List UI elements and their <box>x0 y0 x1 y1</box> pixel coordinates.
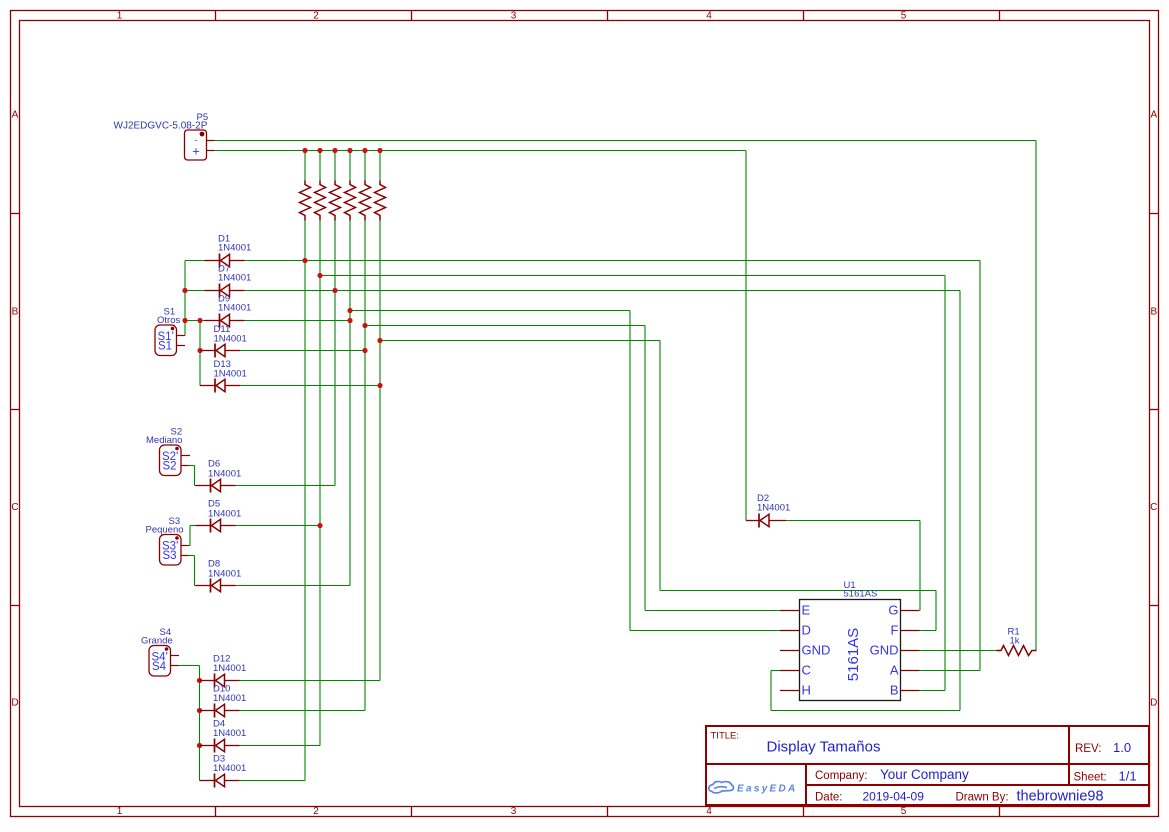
svg-text:5161AS: 5161AS <box>844 589 878 600</box>
svg-text:Drawn By:: Drawn By: <box>956 792 1009 804</box>
svg-text:S3: S3 <box>163 550 177 562</box>
svg-text:D: D <box>802 623 811 638</box>
svg-text:1k: 1k <box>1010 636 1020 647</box>
svg-text:5: 5 <box>901 806 907 817</box>
svg-text:1N4001: 1N4001 <box>214 369 247 380</box>
svg-text:Display Tamaños: Display Tamaños <box>767 739 881 756</box>
svg-text:1N4001: 1N4001 <box>218 303 251 314</box>
svg-text:1N4001: 1N4001 <box>213 763 246 774</box>
svg-text:C: C <box>802 663 811 678</box>
svg-text:E: E <box>802 603 811 618</box>
svg-text:Date:: Date: <box>815 792 843 804</box>
svg-text:A: A <box>1150 110 1157 121</box>
svg-text:5161AS: 5161AS <box>845 628 862 681</box>
svg-text:Pequeno: Pequeno <box>146 525 184 536</box>
svg-text:1N4001: 1N4001 <box>213 663 246 674</box>
svg-text:Sheet:: Sheet: <box>1074 772 1107 784</box>
svg-text:S4: S4 <box>152 661 167 673</box>
svg-text:Otros: Otros <box>157 315 180 326</box>
svg-text:1N4001: 1N4001 <box>208 509 241 520</box>
svg-text:S1: S1 <box>158 341 172 353</box>
svg-text:B: B <box>12 307 19 318</box>
svg-text:REV:: REV: <box>1075 743 1101 755</box>
svg-text:1N4001: 1N4001 <box>213 693 246 704</box>
svg-text:Grande: Grande <box>141 636 173 647</box>
svg-text:Mediano: Mediano <box>146 435 182 446</box>
svg-text:4: 4 <box>706 11 712 22</box>
svg-text:1N4001: 1N4001 <box>213 728 246 739</box>
svg-text:D: D <box>11 698 18 709</box>
svg-text:1/1: 1/1 <box>1119 769 1137 784</box>
svg-text:F: F <box>891 623 899 638</box>
svg-text:1: 1 <box>117 806 123 817</box>
svg-text:1.0: 1.0 <box>1113 740 1131 755</box>
svg-text:4: 4 <box>706 806 712 817</box>
svg-text:2: 2 <box>313 806 319 817</box>
svg-text:1: 1 <box>117 11 123 22</box>
svg-text:TITLE:: TITLE: <box>711 731 740 742</box>
svg-text:C: C <box>1150 502 1157 513</box>
svg-text:1N4001: 1N4001 <box>218 273 251 284</box>
svg-text:C: C <box>11 502 18 513</box>
svg-text:5: 5 <box>901 11 907 22</box>
svg-text:1N4001: 1N4001 <box>214 334 247 345</box>
svg-text:3: 3 <box>511 806 517 817</box>
svg-text:D: D <box>1150 698 1157 709</box>
svg-text:A: A <box>12 110 19 121</box>
svg-text:A: A <box>890 663 899 678</box>
svg-text:EasyEDA: EasyEDA <box>737 784 798 795</box>
svg-text:S2: S2 <box>163 461 177 473</box>
svg-text:1N4001: 1N4001 <box>218 243 251 254</box>
svg-text:1N4001: 1N4001 <box>757 503 790 514</box>
svg-text:2019-04-09: 2019-04-09 <box>863 790 925 804</box>
svg-text:+: + <box>192 144 200 159</box>
svg-text:1N4001: 1N4001 <box>208 569 241 580</box>
svg-text:WJ2EDGVC-5.08-2P: WJ2EDGVC-5.08-2P <box>114 121 208 132</box>
svg-text:Company:: Company: <box>815 770 867 782</box>
svg-text:thebrownie98: thebrownie98 <box>1017 789 1104 805</box>
svg-text:G: G <box>888 603 898 618</box>
svg-text:H: H <box>802 683 811 698</box>
svg-text:3: 3 <box>511 11 517 22</box>
svg-text:GND: GND <box>870 643 899 658</box>
svg-text:2: 2 <box>313 11 319 22</box>
svg-text:B: B <box>1150 307 1157 318</box>
svg-text:B: B <box>890 683 899 698</box>
svg-text:Your Company: Your Company <box>880 767 969 782</box>
svg-text:GND: GND <box>802 643 831 658</box>
svg-text:1N4001: 1N4001 <box>208 469 241 480</box>
